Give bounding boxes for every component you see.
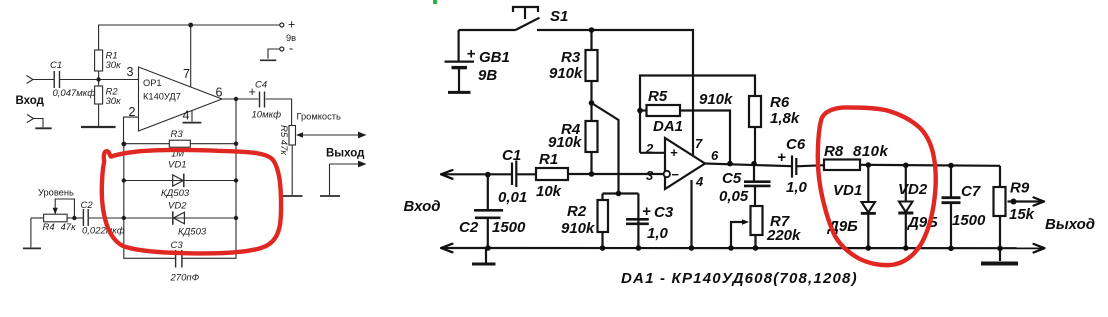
svg-text:0,01: 0,01 (498, 189, 527, 206)
svg-text:Вход: Вход (16, 95, 45, 107)
svg-text:4: 4 (695, 174, 704, 189)
svg-text:R3: R3 (171, 129, 184, 140)
svg-text:15k: 15k (1009, 206, 1035, 223)
svg-text:К140УД7: К140УД7 (143, 92, 181, 102)
svg-text:+: + (670, 145, 678, 160)
svg-text:DA1 - КР140УД608(708,1208): DA1 - КР140УД608(708,1208) (621, 270, 858, 287)
svg-text:1,0: 1,0 (647, 225, 669, 242)
svg-text:C1: C1 (502, 147, 521, 164)
svg-text:30к: 30к (106, 60, 122, 71)
svg-text:C3: C3 (171, 240, 184, 251)
svg-text:+: + (642, 203, 651, 220)
svg-text:1,0: 1,0 (786, 179, 808, 196)
svg-text:220k: 220k (766, 227, 801, 244)
svg-text:C1: C1 (50, 60, 62, 71)
svg-text:КД503: КД503 (161, 188, 190, 199)
svg-text:R5: R5 (648, 88, 668, 105)
svg-text:R2: R2 (567, 203, 587, 220)
svg-text:+: + (249, 85, 256, 99)
svg-text:+: + (288, 18, 295, 32)
svg-text:C2: C2 (81, 200, 94, 211)
svg-text:30к: 30к (106, 96, 122, 107)
svg-text:C3: C3 (654, 204, 674, 221)
svg-text:R5 47к: R5 47к (278, 125, 289, 155)
svg-text:2: 2 (129, 105, 136, 119)
svg-text:C4: C4 (255, 80, 267, 91)
svg-text:0,022мкф: 0,022мкф (82, 226, 125, 237)
svg-text:+: + (467, 46, 476, 63)
svg-text:6: 6 (711, 148, 719, 163)
svg-text:C5: C5 (722, 170, 742, 187)
svg-text:КД503: КД503 (178, 227, 207, 238)
svg-text:0,047мкф: 0,047мкф (53, 88, 96, 99)
svg-text:R9: R9 (1010, 180, 1030, 197)
svg-text:Громкость: Громкость (297, 112, 341, 122)
svg-text:VD2: VD2 (898, 181, 928, 198)
svg-text:1,8k: 1,8k (770, 110, 800, 127)
svg-text:47к: 47к (61, 222, 77, 233)
svg-text:VD1: VD1 (833, 182, 862, 199)
svg-text:+: + (777, 149, 786, 166)
svg-text:GB1: GB1 (479, 49, 510, 66)
svg-text:Уровень: Уровень (38, 188, 74, 198)
svg-text:910k: 910k (561, 220, 595, 237)
svg-text:C2: C2 (459, 219, 479, 236)
svg-text:270пФ: 270пФ (170, 273, 200, 284)
svg-text:R3: R3 (561, 49, 581, 66)
svg-text:S1: S1 (550, 8, 568, 25)
svg-text:DA1: DA1 (653, 118, 683, 135)
svg-text:7: 7 (695, 136, 703, 151)
svg-text:3: 3 (127, 65, 134, 79)
svg-text:10мкф: 10мкф (252, 110, 282, 121)
svg-text:1500: 1500 (952, 212, 986, 229)
svg-text:R4: R4 (43, 222, 55, 233)
svg-text:1500: 1500 (492, 219, 526, 236)
svg-text:Выход: Выход (326, 148, 365, 160)
svg-text:6: 6 (216, 86, 223, 100)
svg-text:R8: R8 (824, 143, 844, 160)
svg-text:Вход: Вход (404, 198, 441, 215)
svg-text:VD2: VD2 (168, 201, 187, 212)
svg-text:810k: 810k (853, 143, 889, 160)
svg-text:910k: 910k (549, 65, 583, 82)
svg-text:910k: 910k (699, 91, 733, 108)
svg-text:2: 2 (645, 141, 654, 156)
svg-text:C6: C6 (786, 136, 806, 153)
svg-text:ОР1: ОР1 (143, 78, 162, 88)
svg-text:C7: C7 (961, 183, 981, 200)
svg-text:10k: 10k (536, 183, 562, 200)
svg-text:VD1: VD1 (168, 160, 186, 171)
svg-text:3: 3 (646, 168, 654, 183)
svg-text:7: 7 (183, 67, 190, 81)
svg-text:R1: R1 (539, 151, 558, 168)
svg-text:910k: 910k (548, 134, 582, 151)
svg-text:R6: R6 (770, 94, 790, 111)
svg-text:9В: 9В (478, 67, 497, 84)
svg-text:Выход: Выход (1045, 216, 1095, 233)
svg-text:4: 4 (183, 109, 190, 123)
svg-text:−: − (671, 167, 679, 182)
svg-text:-: - (289, 42, 293, 56)
svg-text:0,05: 0,05 (719, 188, 749, 205)
